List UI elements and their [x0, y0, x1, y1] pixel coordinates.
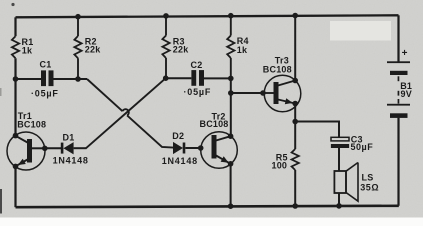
junction dot (230.8,15.7) — [228, 13, 234, 19]
junction dot (78,16.7) — [75, 14, 81, 20]
junction dot (230.6,163.8) — [228, 161, 234, 167]
wire R4 node down to Tr3 base node and Tr2 collector — [230, 78, 232, 136]
transistor Tr1 BC108 — [7, 132, 45, 170]
junction dot (263,93) — [260, 90, 266, 96]
wire Tr3 base node to Tr3 base — [231, 92, 264, 94]
svg-text:100: 100 — [272, 161, 288, 171]
wire Tr2 emitter down to bottom rail — [230, 164, 232, 206]
svg-text:D1: D1 — [63, 132, 75, 142]
wire C2 right lead to R4 bottom node — [204, 77, 231, 79]
capacitor C1 — [41, 70, 54, 86]
junction dot (339,205.9) — [336, 203, 342, 209]
svg-text:C1: C1 — [40, 60, 52, 70]
junction dot (295.2,15.5) — [292, 13, 298, 19]
wire C2 left lead from R3 bottom node — [166, 77, 192, 79]
loudspeaker LS — [334, 163, 358, 202]
svg-text:·05µF: ·05µF — [184, 87, 212, 97]
svg-text:D2: D2 — [172, 131, 184, 141]
svg-text:1N4148: 1N4148 — [162, 156, 198, 166]
svg-text:35Ω: 35Ω — [360, 183, 379, 193]
wire Tr1 base to D1 — [32, 147, 45, 149]
junction dot (15.5,135.6) — [13, 133, 19, 139]
diode D1 — [45, 142, 87, 154]
junction dot (15.5,79) — [13, 76, 19, 82]
svg-text:22k: 22k — [85, 45, 101, 55]
wire diagonal from R2/C1 node to D2 anode (upper segment, with hop at crossing) — [87, 79, 123, 111]
junction dot (295.2,121.5) — [292, 119, 298, 125]
wire Tr3 emitter down to node — [294, 104, 296, 122]
svg-text:22k: 22k — [173, 45, 189, 55]
transistor Tr2 BC108 — [201, 132, 238, 169]
junction dot (295.2,103.5) — [292, 101, 298, 107]
junction dot (230.6,206.2) — [228, 203, 234, 209]
wire C1 left lead from left rail — [16, 78, 42, 80]
resistor R1 — [12, 36, 19, 58]
svg-text:C2: C2 — [191, 60, 203, 70]
wire node to R5 top — [294, 122, 296, 150]
white erased patch top right — [330, 21, 391, 41]
junction dot (230.8,93) — [228, 90, 234, 96]
svg-text:·05µF: ·05µF — [31, 88, 59, 98]
svg-text:+: + — [402, 48, 408, 59]
svg-text:9V: 9V — [401, 89, 412, 99]
wire diagonal from R2/C1 node to D2 anode (lower segment) — [127, 115, 173, 147]
svg-text:1N4148: 1N4148 — [53, 156, 89, 166]
capacitor C3 (electrolytic) — [331, 137, 349, 148]
capacitor C2 — [191, 70, 204, 86]
resistor R2 — [74, 17, 81, 80]
wire top rail — [16, 15, 399, 17]
battery B1 9V — [387, 61, 410, 118]
wire diagonal from R3/C2 node to D1 cathode side — [86, 78, 166, 148]
wire C3 to loudspeaker — [338, 148, 340, 171]
junction dot (200.7,148) — [198, 145, 204, 151]
wire R5 bottom to bottom rail — [294, 170, 296, 206]
dark speck top left — [11, 3, 14, 6]
wire right rail upper (top rail to battery +) — [397, 15, 399, 62]
svg-text:50µF: 50µF — [351, 142, 374, 152]
svg-text:BC108: BC108 — [17, 120, 46, 130]
white band bottom edge — [0, 218, 423, 227]
svg-text:1k: 1k — [22, 46, 33, 56]
resistor R5 — [292, 149, 299, 170]
wire Tr3 emitter node right to C3 — [295, 122, 339, 138]
wire left rail upper segment — [14, 17, 16, 36]
dark scan bar left edge — [0, 189, 2, 214]
junction dot (166,15.9) — [163, 13, 169, 19]
junction dot (15.5,166.4) — [13, 164, 19, 170]
diode D2 — [173, 142, 201, 154]
wire loudspeaker to bottom rail — [338, 193, 340, 206]
junction dot (295.2,80.5) — [292, 78, 298, 84]
junction dot (165.7,78.2) — [163, 75, 169, 81]
junction dot (78,79) — [75, 76, 81, 82]
wire Tr3 collector up to top rail — [294, 16, 296, 81]
wire bottom rail — [16, 206, 399, 207]
resistor R3 — [162, 16, 169, 79]
wire left rail lower segment (Tr1 emitter to bottom rail) — [14, 167, 16, 208]
resistor R4 — [227, 16, 234, 79]
svg-text:BC108: BC108 — [200, 119, 229, 129]
svg-text:LS: LS — [362, 172, 374, 182]
junction dot (295.2,206) — [292, 203, 298, 209]
svg-text:1k: 1k — [237, 45, 248, 55]
svg-text:BC108: BC108 — [263, 65, 292, 75]
wire C1 right lead to R2 bottom node — [54, 78, 88, 80]
junction dot (44.8,148.3) — [42, 146, 48, 152]
wire left rail mid segment (R1 to C1 node to Tr1 collector) — [14, 58, 16, 135]
wire right rail lower (battery - to bottom rail) — [397, 118, 399, 206]
faint mark left edge — [0, 88, 2, 96]
transistor Tr3 BC108 — [264, 75, 301, 112]
junction dot (230.8,78.4) — [228, 76, 234, 82]
junction dot (230.6,136.2) — [228, 133, 234, 139]
wire crossover hop — [123, 109, 129, 115]
